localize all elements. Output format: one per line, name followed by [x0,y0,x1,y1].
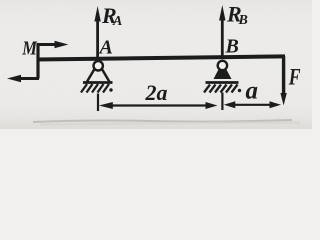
svg-text:B: B [238,13,248,28]
svg-text:A: A [112,14,122,29]
label R_B [226,2,248,29]
dimension tick under B [221,93,223,111]
moment M bottom arrow [7,75,39,83]
support B ground line [206,81,239,84]
moment M top arrow [37,41,68,49]
svg-text:M: M [21,37,37,59]
svg-text:A: A [98,37,113,59]
dimension tick under A [97,94,99,112]
force F arrow (down at right end) [280,56,286,105]
reaction R_A arrow [94,6,100,59]
dimension a [224,101,281,108]
svg-text:2a: 2a [145,80,168,105]
roller support B (filled triangle with pin) [214,61,232,79]
svg-text:B: B [225,36,239,58]
svg-text:F: F [288,64,301,90]
support A ground line [83,81,113,84]
reaction R_B arrow [219,5,225,58]
moment M vertical link [36,43,39,79]
scan smudge at bottom [33,120,292,122]
pinned support A [87,61,110,82]
svg-text:a: a [246,78,259,105]
support B hatching [204,85,241,93]
label R_A [101,3,122,29]
support A hatching [81,84,113,93]
dimension 2a [99,102,218,109]
beam [37,56,286,59]
